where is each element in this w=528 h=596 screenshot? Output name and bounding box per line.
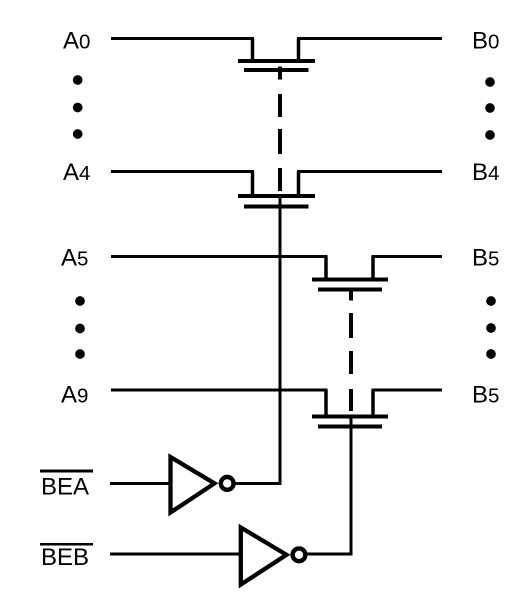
wire U2 output to gate line — [306, 553, 353, 556]
svg-text:B5: B5 — [472, 382, 499, 409]
svg-text:A9: A9 — [61, 382, 88, 409]
node A4 — [63, 159, 90, 186]
transistor Q4 (A9-B5 pass FET) — [312, 390, 388, 429]
ellipsis dots A6-A8 — [75, 296, 85, 359]
wire Q4 source to B5 — [372, 389, 443, 392]
wire U1 output to gate line — [235, 482, 282, 485]
wire Q3 source to B5 — [372, 255, 443, 258]
node A0 — [63, 28, 90, 55]
dashed gate bus Q3 to Q4 — [349, 313, 353, 411]
wire Q1 source to B0 — [297, 37, 442, 40]
svg-text:B0: B0 — [472, 28, 499, 55]
svg-text:A0: A0 — [63, 28, 90, 55]
wire BEB input to inverter U2 — [110, 553, 242, 556]
node B5 (lower) — [472, 382, 499, 409]
dashed gate bus Q1 to Q2 — [278, 94, 282, 191]
ellipsis dots B1-B3 — [485, 77, 495, 140]
node A5 — [61, 245, 88, 272]
ellipsis dots A1-A3 — [73, 75, 83, 139]
node BEA (active low) — [40, 470, 93, 501]
wire Q2 source to B4 — [297, 170, 442, 173]
node B0 — [472, 28, 499, 55]
transistor Q2 (A4-B4 pass FET) — [238, 172, 315, 209]
wire BEA input to inverter U1 — [110, 482, 172, 485]
ellipsis dots B6-B8 — [486, 296, 496, 359]
svg-text:B5: B5 — [472, 245, 499, 272]
wire A9 to Q4 drain — [111, 389, 328, 392]
node B4 — [472, 159, 499, 186]
svg-text:A5: A5 — [61, 245, 88, 272]
wire A0 to Q1 drain — [111, 37, 254, 40]
transistor Q3 (A5-B5 pass FET) — [312, 257, 388, 301]
node B5 — [472, 245, 499, 272]
inverter U1 (BEA buffer) — [171, 457, 234, 513]
svg-text:BEA: BEA — [41, 474, 89, 501]
wire gate line Q2 to BEA inverter output — [279, 198, 282, 485]
node BEB (active low) — [40, 543, 93, 571]
svg-text:BEB: BEB — [41, 544, 89, 571]
transistor Q1 (A0-B0 pass FET) — [238, 39, 315, 80]
svg-text:B4: B4 — [472, 159, 499, 186]
node A9 — [61, 382, 88, 409]
wire A5 to Q3 drain — [111, 255, 328, 258]
wire gate line Q4 to BEB inverter output — [350, 418, 353, 556]
wire A4 to Q2 drain — [111, 170, 254, 173]
inverter U2 (BEB buffer) — [241, 528, 306, 585]
svg-text:A4: A4 — [63, 159, 90, 186]
